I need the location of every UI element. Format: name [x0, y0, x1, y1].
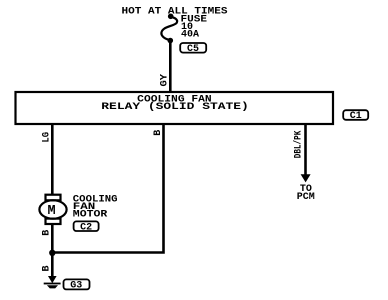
svg-text:PCM: PCM — [297, 192, 315, 203]
svg-text:MOTOR: MOTOR — [73, 210, 108, 221]
motor top terminal — [46, 195, 61, 201]
motor body ellipse — [39, 200, 66, 218]
motor M1: cooling fan motor — [39, 195, 66, 224]
wire GY: fuse to relay — [169, 41, 172, 93]
svg-text:B: B — [42, 265, 53, 271]
svg-text:C1: C1 — [350, 111, 362, 122]
ground G3 symbol — [44, 276, 61, 288]
svg-text:M: M — [48, 204, 56, 219]
svg-text:DBL/PK: DBL/PK — [293, 131, 305, 159]
svg-text:RELAY (SOLID STATE): RELAY (SOLID STATE) — [101, 101, 249, 113]
svg-text:LG: LG — [42, 132, 53, 143]
connector C1 — [343, 110, 368, 122]
wire LG: relay to motor — [51, 124, 54, 195]
svg-text:B: B — [42, 230, 53, 236]
svg-text:B: B — [153, 130, 164, 136]
arrowhead to PCM — [301, 174, 311, 182]
svg-text:40A: 40A — [181, 30, 199, 41]
ground label G3 — [64, 279, 90, 291]
svg-text:G3: G3 — [70, 281, 82, 292]
motor bottom terminal — [46, 219, 61, 224]
svg-text:HOT AT ALL TIMES: HOT AT ALL TIMES — [122, 6, 228, 17]
svg-text:GY: GY — [160, 74, 171, 87]
junction node — [49, 250, 55, 256]
relay box: COOLING FAN RELAY (SOLID STATE) — [16, 92, 334, 124]
wire B: junction to ground — [51, 253, 54, 278]
svg-text:C5: C5 — [187, 44, 199, 55]
fuse F (symbol) — [161, 17, 177, 40]
svg-text:C2: C2 — [80, 222, 92, 233]
connector C2 — [74, 221, 99, 233]
wire B: motor to junction — [51, 224, 54, 253]
wire B: relay middle leg down and left to junction — [52, 124, 163, 253]
wire DBL/PK: relay to PCM arrow — [304, 124, 307, 176]
fuse top terminal dot — [168, 13, 174, 19]
connector C5 — [180, 43, 206, 55]
fuse bottom terminal dot — [168, 38, 174, 44]
